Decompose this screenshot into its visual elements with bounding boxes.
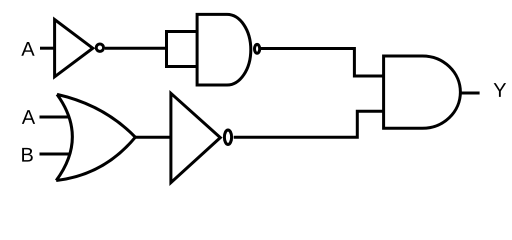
wire: U3 output to inverter U5 input [135, 136, 171, 139]
wire: U4 output to Y [460, 92, 480, 95]
node A (bottom input label) [22, 110, 35, 124]
wire: U5 output to AND U4 lower input (with bend) [234, 111, 384, 137]
wire: A to inverter U1 input [40, 47, 55, 50]
node Y (output label) [494, 83, 506, 97]
OR gate U3 [56, 94, 135, 180]
wire: A to OR U3 upper input [40, 116, 71, 119]
NAND U2 output bubble [255, 44, 260, 53]
inverter U5 (NOT gate, bottom) [171, 93, 220, 182]
node B (input label) [22, 148, 33, 162]
inverter U5 output bubble [224, 130, 231, 145]
wire: U1 output to NAND U2 input tee [105, 47, 167, 50]
wire: U2 output to AND U4 upper input (with bend) [261, 49, 384, 77]
inverter U1 (NOT gate, top) [55, 20, 93, 77]
AND gate U4 [384, 56, 461, 128]
inverter U1 output bubble [96, 44, 103, 51]
NAND gate U2 [197, 14, 251, 85]
node A (top input label) [21, 42, 34, 56]
NAND U2 input tee (both inputs tied) [167, 32, 198, 67]
wire: B to OR U3 lower input [40, 153, 71, 156]
